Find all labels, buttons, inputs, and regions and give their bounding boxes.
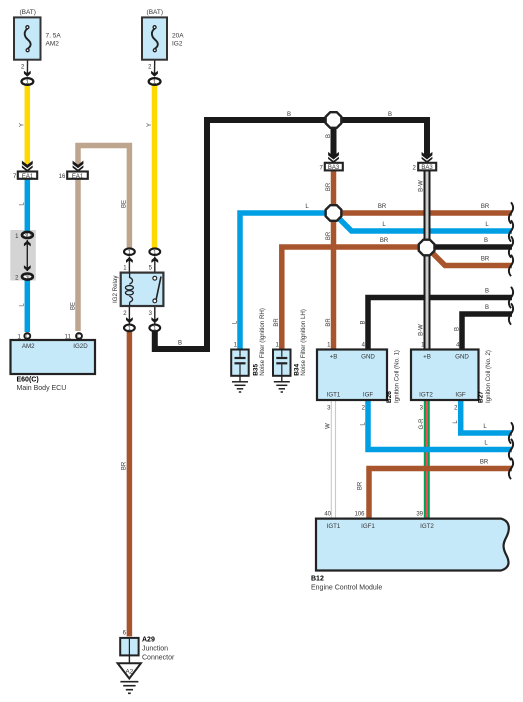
svg-text:2: 2 (362, 406, 366, 412)
svg-text:3U: 3U (24, 233, 31, 239)
svg-text:2: 2 (454, 406, 458, 412)
svg-text:IGT1: IGT1 (327, 392, 341, 399)
svg-text:B26: B26 (386, 391, 393, 403)
svg-text:1: 1 (275, 342, 279, 348)
svg-text:BR: BR (481, 204, 490, 210)
svg-text:11: 11 (65, 335, 72, 341)
svg-text:BR: BR (326, 231, 332, 240)
svg-text:3: 3 (327, 406, 331, 412)
svg-text:Noise Filter (Ignition LH): Noise Filter (Ignition LH) (300, 309, 307, 376)
svg-text:2: 2 (148, 65, 152, 71)
svg-text:BR: BR (122, 461, 128, 470)
svg-text:1: 1 (128, 326, 131, 332)
svg-text:5: 5 (149, 266, 153, 272)
svg-text:C: C (77, 334, 81, 340)
svg-text:B-W: B-W (418, 180, 424, 192)
svg-text:3I: 3I (25, 275, 30, 281)
svg-text:6: 6 (123, 631, 127, 637)
svg-text:EA1: EA1 (72, 174, 84, 180)
svg-text:BR: BR (480, 460, 489, 466)
svg-text:Junction: Junction (142, 646, 168, 653)
svg-text:AM2: AM2 (46, 41, 60, 48)
svg-text:BR: BR (358, 481, 364, 490)
svg-text:1: 1 (153, 80, 156, 86)
svg-text:L: L (483, 424, 487, 430)
svg-text:L: L (484, 441, 488, 447)
svg-text:IGT2: IGT2 (420, 523, 434, 530)
svg-text:BA3: BA3 (421, 165, 433, 171)
svg-text:B: B (360, 320, 366, 324)
svg-text:IGT2: IGT2 (419, 392, 433, 399)
svg-text:IG2D: IG2D (73, 343, 88, 350)
svg-text:B: B (178, 341, 182, 347)
svg-text:L: L (382, 222, 386, 228)
svg-text:Y: Y (20, 123, 26, 127)
svg-text:B: B (287, 112, 291, 118)
svg-text:B: B (485, 289, 489, 295)
svg-text:BE: BE (70, 302, 76, 310)
svg-text:IGF: IGF (455, 392, 466, 399)
svg-text:B12: B12 (311, 576, 324, 583)
svg-text:B: B (388, 112, 392, 118)
svg-text:IGT1: IGT1 (327, 523, 341, 530)
svg-text:BA3: BA3 (328, 165, 340, 171)
svg-text:IGF: IGF (363, 392, 374, 399)
svg-text:BR: BR (326, 318, 332, 327)
svg-text:BR: BR (378, 204, 387, 210)
svg-text:Engine Control Module: Engine Control Module (311, 585, 382, 592)
svg-text:W: W (326, 423, 332, 429)
svg-text:40: 40 (324, 512, 331, 518)
svg-text:BR: BR (380, 238, 389, 244)
svg-text:4: 4 (362, 342, 366, 348)
svg-text:BR: BR (326, 182, 332, 191)
svg-text:Ignition Coil (No. 1): Ignition Coil (No. 1) (394, 350, 401, 403)
svg-text:E60(C): E60(C) (17, 377, 39, 384)
svg-text:BE: BE (122, 200, 128, 208)
svg-text:Y: Y (147, 123, 153, 127)
svg-text:GND: GND (455, 354, 469, 361)
svg-text:1: 1 (26, 80, 29, 86)
svg-text:1: 1 (128, 250, 131, 256)
svg-text:2: 2 (412, 165, 416, 171)
svg-text:Ignition Coil (No. 2): Ignition Coil (No. 2) (485, 350, 492, 403)
svg-text:B-W: B-W (418, 324, 424, 336)
svg-text:L: L (485, 222, 489, 228)
svg-text:IGF1: IGF1 (361, 523, 375, 530)
svg-text:7: 7 (13, 174, 17, 180)
svg-text:Main Body ECU: Main Body ECU (17, 385, 67, 392)
svg-text:3: 3 (420, 406, 424, 412)
svg-text:1: 1 (123, 266, 127, 272)
svg-text:(BAT): (BAT) (147, 9, 164, 16)
svg-text:3: 3 (149, 311, 153, 317)
svg-text:BR: BR (481, 257, 490, 263)
svg-text:7: 7 (319, 165, 323, 171)
svg-text:A29: A29 (142, 637, 155, 644)
svg-text:Noise Filter (Ignition RH): Noise Filter (Ignition RH) (259, 308, 266, 376)
svg-text:+B: +B (330, 354, 338, 361)
svg-text:2: 2 (21, 65, 25, 71)
svg-text:39: 39 (416, 512, 423, 518)
svg-text:AM2: AM2 (22, 343, 35, 350)
svg-text:IG2: IG2 (172, 41, 183, 48)
svg-text:B: B (484, 238, 488, 244)
svg-text:1: 1 (153, 326, 156, 332)
svg-text:106: 106 (354, 512, 365, 518)
svg-text:GND: GND (361, 354, 375, 361)
svg-text:20A: 20A (172, 33, 184, 40)
svg-text:A2: A2 (125, 669, 133, 676)
svg-text:B: B (326, 134, 332, 138)
svg-text:1: 1 (153, 250, 156, 256)
svg-text:B27: B27 (478, 391, 485, 403)
svg-text:7. 5A: 7. 5A (46, 33, 62, 40)
svg-text:BR: BR (274, 318, 280, 327)
svg-text:L: L (305, 204, 309, 210)
svg-text:B: B (485, 305, 489, 311)
svg-text:1: 1 (327, 342, 331, 348)
svg-text:2: 2 (123, 311, 127, 317)
svg-text:C: C (25, 334, 29, 340)
svg-text:Connector: Connector (142, 655, 175, 662)
svg-text:G-R: G-R (419, 418, 425, 430)
svg-text:+B: +B (423, 354, 431, 361)
svg-text:(BAT): (BAT) (19, 9, 36, 16)
svg-text:IG2 Relay: IG2 Relay (112, 275, 119, 303)
svg-text:16: 16 (59, 174, 66, 180)
svg-text:B: B (454, 327, 460, 331)
svg-text:EA1: EA1 (22, 174, 34, 180)
svg-text:1: 1 (234, 342, 238, 348)
